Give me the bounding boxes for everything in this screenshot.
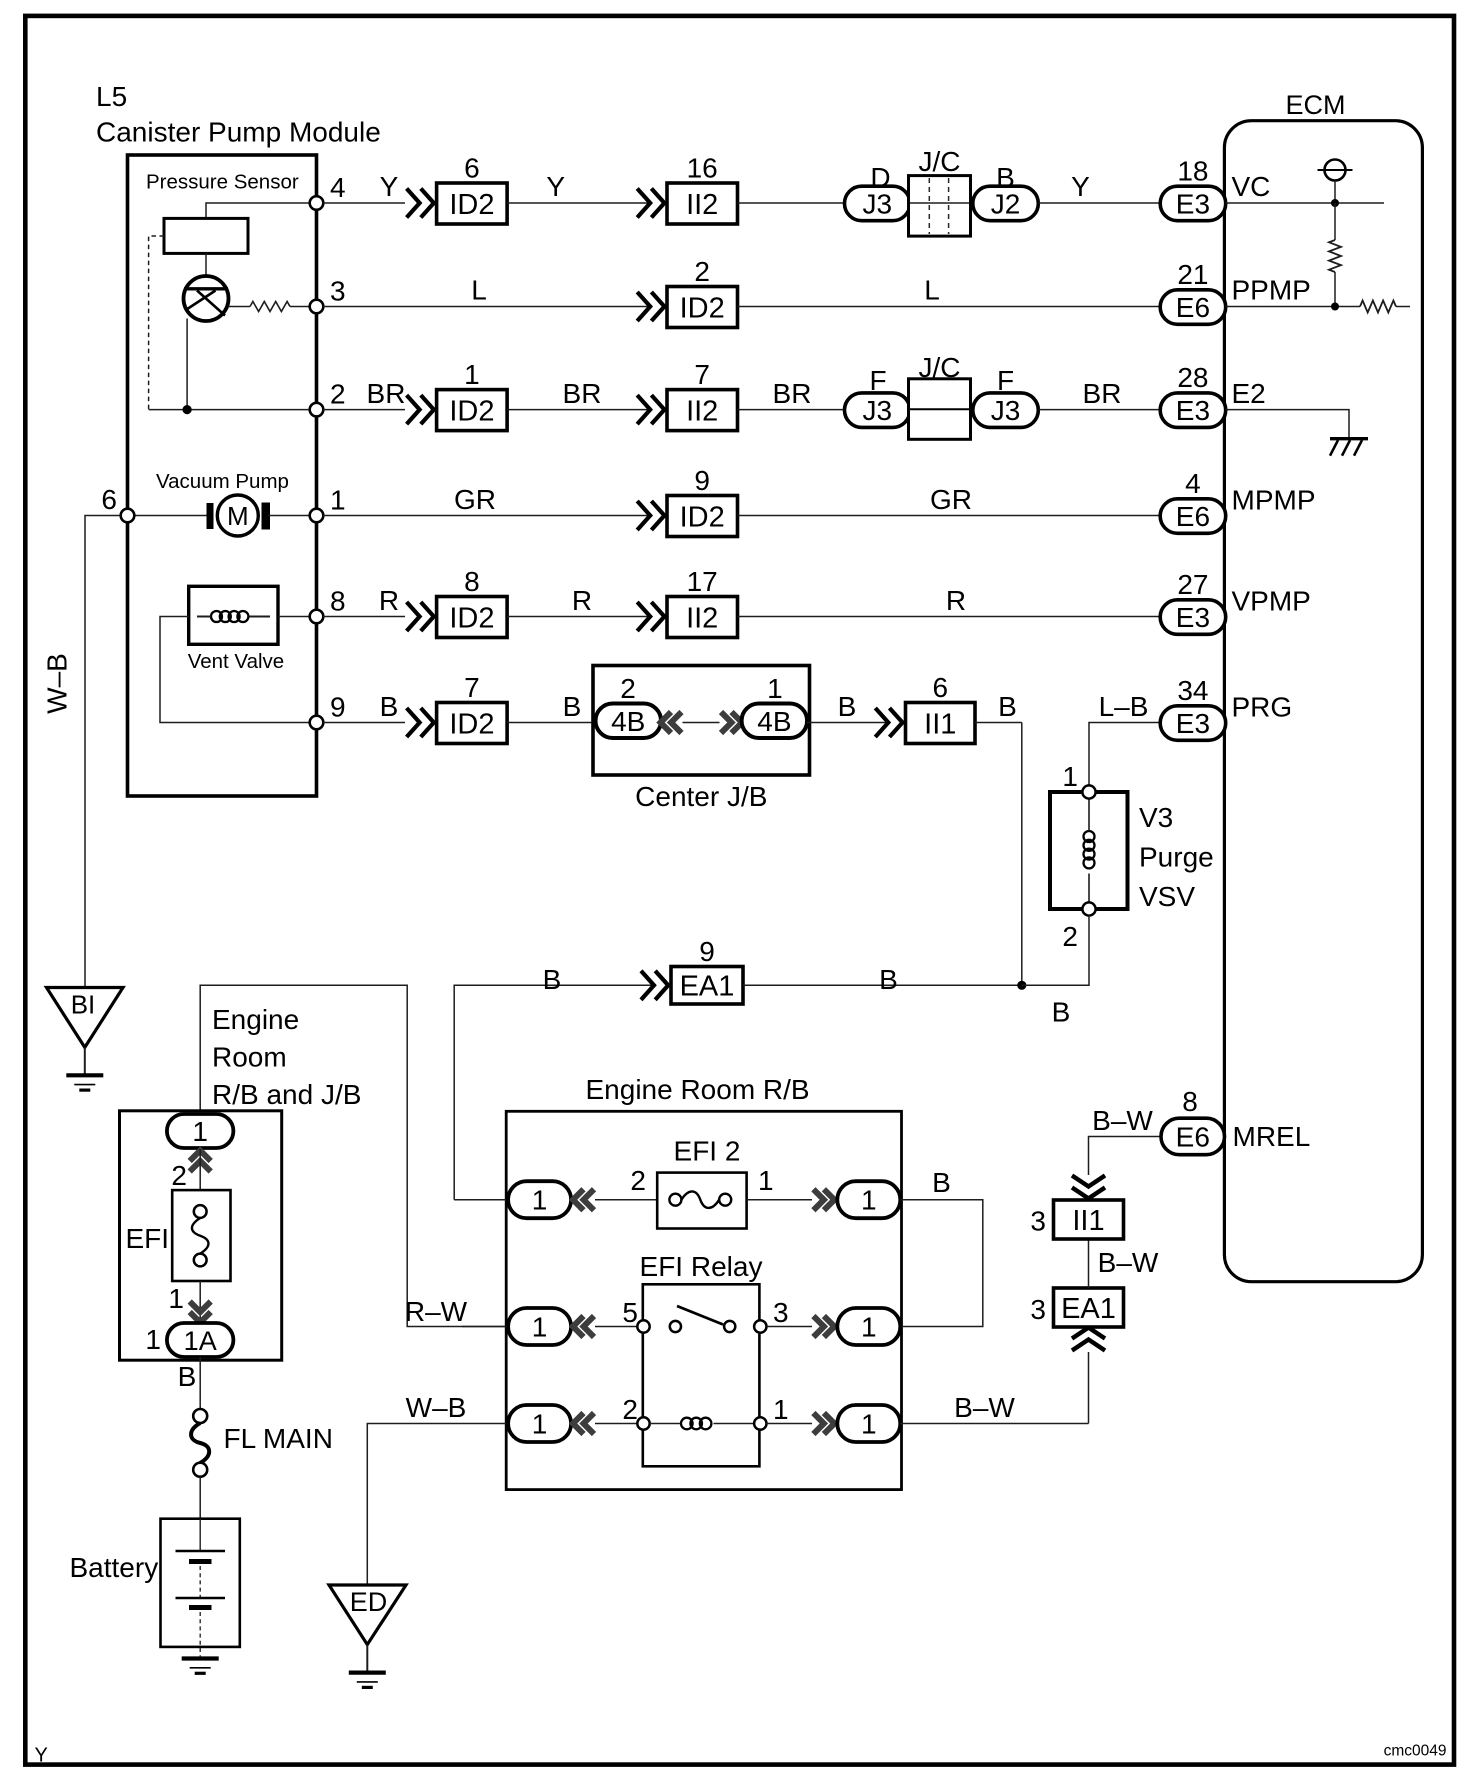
connector 1 oval coil left	[508, 1405, 571, 1442]
svg-text:1: 1	[861, 1312, 877, 1343]
wire B-W to E6 MREL	[1089, 1137, 1162, 1176]
svg-text:F: F	[997, 365, 1014, 396]
Engine Room R/B and J/B box	[120, 1111, 282, 1360]
wire to EFI 2 fuse	[595, 1199, 657, 1201]
connector ID2 pin 2	[667, 256, 738, 328]
wire motor to pin1	[268, 515, 317, 517]
svg-text:2: 2	[330, 379, 346, 410]
svg-text:B: B	[178, 1361, 197, 1392]
ground triangle ED	[329, 1585, 406, 1645]
svg-text:II2: II2	[686, 189, 718, 221]
VSV pin 1	[1082, 785, 1095, 798]
svg-text:4B: 4B	[757, 706, 791, 737]
junction connector J3 pin F left	[845, 393, 911, 428]
svg-text:17: 17	[687, 566, 718, 597]
connector II2 pin 17	[667, 566, 738, 638]
svg-text:Vacuum Pump: Vacuum Pump	[156, 470, 289, 493]
relay pin 3	[754, 1320, 766, 1332]
svg-text:Purge: Purge	[1139, 842, 1214, 873]
svg-text:GR: GR	[930, 484, 972, 515]
svg-text:Center J/B: Center J/B	[635, 781, 767, 812]
svg-text:1A: 1A	[184, 1326, 217, 1356]
svg-text:EFI 2: EFI 2	[674, 1136, 741, 1167]
svg-text:J3: J3	[991, 395, 1021, 426]
svg-text:cmc0049: cmc0049	[1384, 1743, 1447, 1760]
junction block J/C row1	[909, 176, 971, 237]
connector arrows to ID2 row3	[407, 395, 434, 424]
connector 1 oval coil right	[837, 1405, 900, 1442]
svg-text:3: 3	[1030, 1294, 1046, 1325]
internal series resistor PPMP	[1360, 301, 1396, 313]
wire B-W between EA1 and II1	[1088, 1239, 1090, 1288]
pin 2	[310, 403, 324, 417]
svg-text:8: 8	[464, 566, 480, 597]
vent valve box	[189, 586, 278, 644]
svg-text:3: 3	[1030, 1206, 1046, 1237]
connector arrows to II2 row5	[637, 602, 664, 631]
svg-text:Room: Room	[212, 1042, 287, 1073]
connector arrows up to EA1 vertical	[1072, 1328, 1105, 1351]
Engine Room R/B box	[506, 1111, 901, 1489]
svg-text:34: 34	[1177, 675, 1208, 706]
wire sensor box left branch	[149, 236, 164, 410]
wire Y between ID2 and II2	[507, 202, 650, 204]
svg-text:16: 16	[687, 153, 718, 184]
junction B node	[1017, 981, 1026, 990]
connector arrow up to oval 1	[190, 1151, 211, 1172]
connector E6 pin 8 MREL	[1161, 1118, 1225, 1155]
wire PPMP inside ECM	[1226, 306, 1360, 308]
wire pump to resistor to pin3	[229, 306, 251, 308]
connector 1 oval top	[167, 1114, 234, 1148]
junction connector J2 pin B	[973, 186, 1039, 221]
svg-text:FL MAIN: FL MAIN	[224, 1423, 333, 1454]
connector arrows to ID2 row4	[637, 501, 664, 530]
svg-text:B: B	[380, 691, 399, 722]
svg-text:Engine Room R/B: Engine Room R/B	[586, 1074, 810, 1105]
canister pump module L5 box	[128, 155, 317, 796]
svg-text:II2: II2	[686, 395, 718, 427]
svg-text:8: 8	[1182, 1086, 1198, 1117]
svg-text:L–B: L–B	[1099, 691, 1149, 722]
wire BR between ID2 and II2	[507, 409, 650, 411]
ground ED	[349, 1673, 386, 1688]
connector E3 pin 18 VC	[1160, 186, 1226, 221]
svg-text:E6: E6	[1176, 501, 1210, 532]
relay pin 5	[637, 1320, 649, 1332]
wire BR pin2 to arrows	[323, 409, 405, 411]
wire B-W riser to MREL	[1088, 1352, 1090, 1424]
svg-text:M: M	[227, 501, 249, 531]
pin 4	[310, 196, 324, 210]
svg-text:L: L	[924, 275, 940, 306]
svg-text:Battery: Battery	[70, 1552, 159, 1583]
wire battery to ground	[199, 1612, 201, 1659]
wire vent valve to pin8	[278, 616, 317, 618]
wire sensor box to pump circle	[205, 253, 207, 288]
wire R between ID2 and II2	[507, 616, 650, 618]
svg-text:J/C: J/C	[919, 352, 961, 383]
svg-text:II1: II1	[924, 708, 956, 740]
wire between 4B ovals	[683, 722, 720, 724]
relay coil	[650, 1423, 681, 1425]
svg-text:4: 4	[1185, 468, 1201, 499]
wire GR ID2 to ECM	[738, 515, 1161, 517]
wire vent valve to pin9	[160, 617, 317, 723]
svg-text:B–W: B–W	[1092, 1105, 1153, 1136]
wire source to VC node	[1334, 181, 1336, 204]
EFI relay box	[643, 1284, 760, 1466]
svg-text:W–B: W–B	[406, 1392, 467, 1423]
svg-text:E6: E6	[1176, 292, 1210, 323]
pin 6	[121, 509, 135, 523]
connector ID2 pin 7	[437, 672, 508, 744]
EFI 2 fuse box	[657, 1173, 746, 1229]
svg-text:ID2: ID2	[449, 708, 494, 740]
wire B II1 to corner	[975, 722, 1022, 724]
svg-text:BR: BR	[773, 378, 812, 409]
battery box	[161, 1519, 240, 1647]
svg-text:1: 1	[532, 1312, 548, 1343]
svg-text:9: 9	[694, 465, 710, 496]
svg-text:9: 9	[330, 692, 346, 723]
svg-text:1: 1	[773, 1394, 789, 1425]
junction block J/C row3	[909, 379, 971, 440]
connector arrows to EA1	[641, 971, 668, 1000]
svg-text:B: B	[932, 1167, 951, 1198]
wire BI to ground	[84, 1047, 86, 1075]
relay pin 1	[754, 1417, 766, 1429]
wire BR J3 to ECM	[1039, 409, 1161, 411]
connector arrow to 4B right	[721, 712, 742, 733]
svg-text:ED: ED	[350, 1587, 388, 1617]
svg-text:3: 3	[330, 276, 346, 307]
svg-text:Pressure Sensor: Pressure Sensor	[146, 171, 299, 194]
svg-text:1: 1	[330, 485, 346, 516]
svg-text:5: 5	[622, 1297, 638, 1328]
wire resistor to ECM interior	[1396, 306, 1410, 308]
wire EFI 2 fuse out	[747, 1199, 812, 1201]
svg-text:1: 1	[145, 1324, 161, 1355]
wire Y to J3	[738, 202, 846, 204]
svg-text:B: B	[998, 691, 1017, 722]
svg-text:1: 1	[192, 1116, 208, 1147]
wire L-B ECM to VSV	[1089, 723, 1160, 786]
wire pin4 Y segment	[323, 202, 405, 204]
wire VC inside ECM	[1226, 202, 1384, 204]
connector arrow from 4B left	[661, 712, 682, 733]
svg-text:1: 1	[861, 1185, 877, 1216]
svg-text:D: D	[870, 162, 890, 193]
svg-text:E3: E3	[1176, 602, 1210, 633]
EFI 2 fuse element	[669, 1194, 681, 1206]
ECM box	[1224, 121, 1422, 1282]
VSV coil	[1084, 831, 1095, 868]
svg-text:6: 6	[101, 484, 117, 515]
svg-text:B: B	[996, 162, 1015, 193]
wire B EFI2 to relay pin3	[900, 1200, 983, 1327]
svg-text:B: B	[543, 964, 562, 995]
svg-text:ID2: ID2	[449, 189, 494, 221]
wire B pin9 to arrows	[323, 722, 405, 724]
svg-text:Y: Y	[380, 171, 399, 202]
junction connector 4B pin 1	[742, 704, 808, 739]
wire oval to relay pin5	[595, 1326, 644, 1328]
svg-text:1: 1	[532, 1185, 548, 1216]
svg-text:1: 1	[1062, 761, 1078, 792]
svg-text:MREL: MREL	[1233, 1121, 1311, 1152]
vent valve coil L1	[211, 611, 248, 622]
svg-text:BR: BR	[1083, 378, 1122, 409]
wire pin4 to pressure sensor	[206, 203, 317, 218]
svg-text:R: R	[572, 585, 592, 616]
connector arrows to ID2 row2	[637, 292, 664, 321]
connector II1 pin 6	[906, 672, 976, 744]
svg-text:18: 18	[1177, 156, 1208, 187]
wire Y J2 to ECM	[1039, 202, 1161, 204]
connector ID2 pin 6	[437, 153, 508, 225]
svg-text:2: 2	[694, 256, 710, 287]
svg-text:7: 7	[464, 672, 480, 703]
svg-text:8: 8	[330, 586, 346, 617]
connector arrows down to II1 vertical	[1072, 1176, 1105, 1199]
wire FL MAIN to battery	[199, 1477, 201, 1519]
svg-text:II1: II1	[1072, 1205, 1104, 1237]
Center J/B box	[593, 666, 810, 776]
svg-text:B: B	[1052, 997, 1071, 1028]
svg-text:3: 3	[773, 1297, 789, 1328]
connector arrows to ID2 row5	[407, 602, 434, 631]
svg-text:J/C: J/C	[919, 146, 961, 177]
wire B battery feed	[199, 1357, 201, 1409]
connector EA1 pin 3 vertical	[1054, 1288, 1124, 1327]
wire R II2 to ECM	[738, 616, 1161, 618]
svg-text:BR: BR	[367, 378, 406, 409]
connector 1 oval relay right	[837, 1308, 900, 1345]
vacuum pump motor M1	[207, 495, 271, 536]
svg-text:1: 1	[758, 1165, 774, 1196]
wire R pin8 to arrows	[323, 616, 405, 618]
wire B corner to EA1	[454, 985, 655, 1199]
wire into EFI2 row oval	[454, 1199, 508, 1201]
relay pin 2	[637, 1417, 649, 1429]
connector arrows to ID2 row6	[407, 708, 434, 737]
connector ID2 pin 8	[437, 566, 508, 638]
connector E6 pin 21 PPMP	[1160, 290, 1226, 325]
svg-text:B–W: B–W	[1098, 1247, 1159, 1278]
svg-text:VPMP: VPMP	[1232, 586, 1311, 617]
connector arrows to II2 row3	[637, 395, 664, 424]
wire E2 to chassis ground	[1226, 410, 1349, 439]
svg-text:R: R	[946, 585, 966, 616]
svg-text:2: 2	[622, 1394, 638, 1425]
svg-text:R/B and J/B: R/B and J/B	[212, 1079, 361, 1110]
svg-text:ID2: ID2	[449, 395, 494, 427]
wire B drop to EA1 row	[1021, 723, 1023, 986]
VSV pin 2	[1082, 902, 1095, 915]
svg-text:B: B	[563, 691, 582, 722]
junction VC node	[1331, 199, 1339, 207]
svg-text:1: 1	[168, 1283, 184, 1314]
junction connector J3 pin F right	[973, 393, 1039, 428]
wire R-W riser	[200, 985, 506, 1326]
svg-text:EFI: EFI	[126, 1223, 170, 1254]
wire B ID2 to Center J/B	[507, 722, 597, 724]
EFI fuse box	[172, 1190, 230, 1281]
wire W-B to ED	[367, 1424, 508, 1586]
svg-text:EA1: EA1	[680, 971, 735, 1003]
junction PPMP node	[1331, 303, 1339, 311]
svg-text:Y: Y	[546, 171, 565, 202]
internal power source symbol	[1318, 160, 1353, 181]
svg-text:B: B	[838, 691, 857, 722]
svg-text:V3: V3	[1139, 802, 1173, 833]
svg-text:R: R	[379, 585, 399, 616]
svg-text:B: B	[879, 964, 898, 995]
svg-text:W–B: W–B	[42, 653, 73, 714]
svg-text:VC: VC	[1232, 171, 1271, 202]
connector EA1 pin 9	[671, 936, 743, 1004]
wire GR pin1 to ID2	[323, 515, 650, 517]
wire B-W coil to riser	[900, 1423, 1088, 1425]
wire R-W to relay oval	[462, 1326, 508, 1328]
svg-text:MPMP: MPMP	[1232, 485, 1316, 516]
connector arrow coil right	[813, 1413, 834, 1434]
wire resistor to PPMP node	[1334, 272, 1336, 307]
svg-text:7: 7	[694, 359, 710, 390]
svg-text:J3: J3	[863, 189, 893, 220]
svg-text:ID2: ID2	[680, 292, 725, 324]
pin 9	[310, 716, 324, 730]
svg-text:1: 1	[464, 359, 480, 390]
connector 1 oval EFI2 left	[508, 1181, 571, 1218]
pin 8	[310, 610, 324, 624]
svg-text:9: 9	[699, 936, 715, 967]
connector 1 oval EFI2 right	[837, 1181, 900, 1218]
connector arrow down to 1A	[190, 1302, 211, 1323]
svg-text:L: L	[471, 275, 487, 306]
wire internal ground bus to pin2	[149, 409, 317, 411]
svg-text:E2: E2	[1232, 378, 1266, 409]
wire L pin3 to ID2	[323, 306, 650, 308]
svg-text:4B: 4B	[611, 706, 645, 737]
connector arrow EFI2 right	[813, 1189, 834, 1210]
wire VC node to resistor	[1334, 203, 1336, 240]
connector E3 pin 28 E2	[1160, 393, 1226, 428]
svg-text:II2: II2	[686, 602, 718, 634]
svg-text:BR: BR	[563, 378, 602, 409]
connector 1A oval	[167, 1323, 234, 1357]
pressure sensor element box	[164, 218, 248, 253]
ground BI	[66, 1075, 103, 1090]
connector E3 pin 27 VPMP	[1160, 600, 1226, 635]
purge VSV V3 box	[1050, 792, 1128, 909]
wire B 4B to II1	[807, 722, 889, 724]
wire fuse to 1A	[199, 1281, 201, 1330]
junction module ground node	[183, 405, 192, 414]
connector II2 pin 7	[667, 359, 738, 431]
wire L ID2 to ECM	[738, 306, 1161, 308]
wire oval to relay pin2	[595, 1423, 644, 1425]
junction connector J3 pin D	[845, 186, 911, 221]
svg-text:28: 28	[1177, 362, 1208, 393]
wire pin6 to motor	[128, 515, 208, 517]
connector arrows to II2	[637, 189, 664, 218]
svg-text:ID2: ID2	[449, 602, 494, 634]
svg-text:2: 2	[171, 1160, 187, 1191]
svg-text:1: 1	[532, 1409, 548, 1440]
svg-text:Y: Y	[35, 1745, 48, 1767]
svg-text:27: 27	[1177, 569, 1208, 600]
connector arrow EFI2 left	[573, 1189, 594, 1210]
fusible link FL MAIN	[193, 1409, 207, 1423]
svg-text:Canister Pump Module: Canister Pump Module	[96, 117, 381, 148]
internal pull-up resistor	[1329, 240, 1341, 272]
connector arrows to II1	[875, 708, 902, 737]
svg-text:EA1: EA1	[1061, 1293, 1116, 1325]
connector E3 pin 34 PRG	[1160, 706, 1226, 741]
wire relay pin3 out	[767, 1326, 813, 1328]
svg-text:1: 1	[767, 673, 783, 704]
svg-text:4: 4	[330, 172, 346, 203]
svg-text:PRG: PRG	[1232, 692, 1293, 723]
connector E6 pin 4 MPMP	[1160, 499, 1226, 534]
svg-text:EFI Relay: EFI Relay	[640, 1251, 763, 1282]
connector arrow coil left	[573, 1413, 594, 1434]
wire pump bottom to node	[186, 319, 188, 410]
svg-text:2: 2	[620, 673, 636, 704]
svg-text:21: 21	[1177, 259, 1208, 290]
svg-text:J2: J2	[991, 189, 1021, 220]
svg-text:BI: BI	[71, 990, 96, 1020]
svg-text:ID2: ID2	[680, 501, 725, 533]
ground battery	[182, 1659, 219, 1674]
wire BR to J3	[738, 409, 846, 411]
resistor in pressure sensor output	[250, 302, 290, 312]
battery plates	[199, 1519, 201, 1551]
ground triangle BI	[47, 988, 124, 1048]
wire W-B pin6 branch	[85, 516, 121, 988]
svg-text:Vent Valve: Vent Valve	[188, 650, 285, 673]
connector ID2 pin 9	[667, 465, 738, 537]
svg-text:L5: L5	[96, 81, 127, 112]
EFI fuse element	[194, 1205, 207, 1218]
svg-text:E3: E3	[1176, 189, 1210, 220]
connector 1 oval relay left	[508, 1308, 571, 1345]
svg-text:F: F	[869, 365, 886, 396]
svg-text:2: 2	[1062, 921, 1078, 952]
pin 3	[310, 300, 324, 314]
svg-text:E6: E6	[1176, 1122, 1210, 1153]
connector arrow relay right	[813, 1316, 834, 1337]
svg-text:PPMP: PPMP	[1232, 275, 1311, 306]
connector II1 pin 3 vertical	[1054, 1200, 1124, 1239]
connector arrows to ID2	[407, 189, 434, 218]
connector ID2 pin 1	[437, 359, 508, 431]
pin 1	[310, 509, 324, 523]
pressure sensor pump symbol	[184, 276, 229, 321]
svg-text:E3: E3	[1176, 708, 1210, 739]
chassis ground E2	[1330, 439, 1368, 456]
svg-text:6: 6	[464, 153, 480, 184]
wire junction to VSV pin2	[1022, 916, 1089, 986]
svg-text:VSV: VSV	[1139, 881, 1195, 912]
svg-text:1: 1	[861, 1409, 877, 1440]
svg-text:6: 6	[933, 672, 949, 703]
connector arrow relay left	[573, 1316, 594, 1337]
svg-text:Y: Y	[1071, 171, 1090, 202]
junction connector 4B pin 2	[596, 704, 662, 739]
